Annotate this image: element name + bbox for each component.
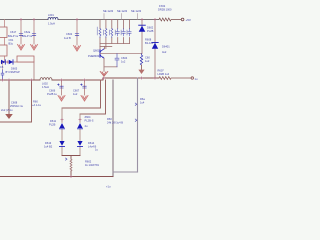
ground C617 <box>18 45 25 51</box>
svg-text:C617: C617 <box>10 30 17 34</box>
svg-text:C602: C602 <box>66 32 73 36</box>
wire net stems <box>104 14 138 20</box>
svg-text:D605: D605 <box>11 66 18 70</box>
diode chain 1 <box>61 108 63 156</box>
capacitor C604 <box>115 54 119 67</box>
wire chain join <box>62 156 80 160</box>
node RTN output terminal <box>191 77 193 79</box>
svg-text:D613: D613 <box>45 141 52 145</box>
inductor L602 <box>40 78 52 80</box>
svg-text:R60: R60 <box>33 100 38 104</box>
snubber column C603 <box>117 20 119 44</box>
junction marks <box>1 18 156 177</box>
resistor R607 <box>159 77 191 80</box>
svg-text:D6401: D6401 <box>162 45 170 49</box>
diode D606 <box>9 60 13 64</box>
diode D602 clamp <box>141 20 143 54</box>
wire net gray bottom <box>113 171 138 173</box>
svg-text:C608: C608 <box>11 101 18 105</box>
svg-text:B1-1u4: B1-1u4 <box>145 41 154 45</box>
svg-text:24k 1/8 1u4 B: 24k 1/8 1u4 B <box>107 121 123 125</box>
svg-text:R602: R602 <box>85 159 92 163</box>
capacitor C617 branch <box>20 20 22 45</box>
wire snubber bottom 2 <box>100 46 112 48</box>
diode D605 <box>1 60 5 64</box>
svg-text:1u4 B2: 1u4 B2 <box>44 144 53 148</box>
connector J601 pin1 box <box>0 27 7 38</box>
ground C602 <box>74 46 81 52</box>
svg-text:NE 1u03: NE 1u03 <box>103 9 114 13</box>
capacitor C607 branch <box>84 80 86 95</box>
inductor L601 <box>48 18 58 20</box>
svg-text:1.5uH: 1.5uH <box>42 85 49 89</box>
svg-text:R608: R608 <box>145 38 152 42</box>
svg-text:PL2B 1u: PL2B 1u <box>47 92 58 96</box>
svg-text:B1u: B1u <box>9 42 14 46</box>
svg-text:C61: C61 <box>9 38 14 42</box>
svg-text:+A 1-1u: +A 1-1u <box>32 103 42 107</box>
wire staircase 2 <box>80 80 106 114</box>
svg-text:DR2B 1000: DR2B 1000 <box>158 8 172 12</box>
resistor R606 <box>140 54 142 66</box>
svg-text:PHE8403: PHE8403 <box>88 54 100 58</box>
wire net gray left <box>112 80 114 177</box>
snubber column C609 <box>129 20 131 44</box>
ground C607 <box>81 96 88 102</box>
capacitor C602 branch <box>76 20 78 46</box>
capacitor CX1 <box>1 70 4 80</box>
svg-text:250VAC 1u: 250VAC 1u <box>10 104 24 108</box>
svg-text:1k 1/2W 5%: 1k 1/2W 5% <box>85 163 100 167</box>
svg-text:PL2B-S: PL2B-S <box>85 119 94 123</box>
svg-text:+5V: +5V <box>186 18 191 22</box>
diode D601 rectifier <box>154 20 156 79</box>
svg-text:R6a: R6a <box>140 97 145 101</box>
svg-text:D611: D611 <box>50 119 57 123</box>
transistor Q601 <box>99 50 101 57</box>
wire net gray right <box>137 78 139 172</box>
svg-text:NE 1u03: NE 1u03 <box>117 9 128 13</box>
wire staircase 1 <box>62 80 101 108</box>
diode chain 2 <box>79 114 81 156</box>
inductor FX02 <box>159 18 181 21</box>
ground C606 <box>58 96 65 102</box>
svg-text:1.5uH: 1.5uH <box>48 22 55 26</box>
snubber column R613 <box>111 20 113 44</box>
wire drive line <box>100 54 142 67</box>
wire lower rail <box>0 78 159 80</box>
svg-text:L601: L601 <box>48 13 54 17</box>
svg-text:Z604: Z604 <box>85 115 91 119</box>
svg-text:C604: C604 <box>121 56 128 60</box>
snubber rotated value labels <box>97 27 127 35</box>
connector J601 pin2 box <box>0 45 7 56</box>
snubber column R611 <box>99 20 101 54</box>
svg-text:Q601: Q601 <box>93 49 100 53</box>
svg-text:C62a: C62a <box>24 30 31 34</box>
wire bottom rail <box>0 176 113 178</box>
ground main <box>5 114 13 119</box>
ground R606 <box>138 70 144 74</box>
svg-text:C60: C60 <box>145 56 150 60</box>
diode D611 <box>59 123 64 128</box>
snubber column C605 <box>123 20 125 44</box>
svg-text:BYV26/PGP: BYV26/PGP <box>6 70 21 74</box>
svg-text:L602: L602 <box>42 82 48 86</box>
svg-text:PL2B: PL2B <box>49 122 56 126</box>
svg-text:LR2B 1u4: LR2B 1u4 <box>158 72 170 76</box>
wire emitter <box>103 58 105 71</box>
ground Q601 emitter <box>100 72 108 77</box>
svg-text:1u2: 1u2 <box>73 92 78 96</box>
component box NTC <box>17 56 34 62</box>
svg-text:1u4: 1u4 <box>140 101 145 105</box>
svg-text:+1u: +1u <box>106 185 111 189</box>
svg-text:BALP 1u: BALP 1u <box>8 34 19 38</box>
svg-text:C606: C606 <box>49 89 56 93</box>
svg-text:BALP 1u: BALP 1u <box>22 34 33 38</box>
ground C618 <box>31 45 38 51</box>
capacitor C618 branch <box>33 20 35 45</box>
diode D612 <box>77 123 82 128</box>
svg-text:NE 1u03: NE 1u03 <box>131 9 142 13</box>
wire left input drop <box>4 20 6 63</box>
wire big ground branch <box>8 80 10 114</box>
capacitor C606 branch <box>61 80 63 95</box>
svg-text:1u2: 1u2 <box>121 60 126 64</box>
snubber column R612 <box>105 20 107 49</box>
diode D614 <box>77 141 82 146</box>
diode D613 <box>59 141 64 146</box>
svg-text:R60: R60 <box>107 117 112 121</box>
wire top bus <box>0 19 159 21</box>
wire snubber bottom <box>100 43 130 45</box>
svg-text:1u2: 1u2 <box>145 59 150 63</box>
svg-text:R607: R607 <box>158 69 165 73</box>
resistor R602 <box>70 159 72 171</box>
svg-text:4u2: 4u2 <box>162 50 167 54</box>
svg-text:PL2B: PL2B <box>147 29 154 33</box>
wire diode row <box>1 62 34 80</box>
svg-text:FX02: FX02 <box>159 4 166 8</box>
svg-text:C607: C607 <box>73 89 80 93</box>
node +5V output terminal <box>181 18 184 21</box>
svg-text:1u2 B: 1u2 B <box>64 36 71 40</box>
svg-text:D602: D602 <box>147 26 154 30</box>
svg-text:D614: D614 <box>88 141 95 145</box>
svg-text:2u2 (V)1u: 2u2 (V)1u <box>1 108 13 112</box>
svg-text:C6: C6 <box>0 65 4 69</box>
wire left exit branch <box>0 80 32 122</box>
